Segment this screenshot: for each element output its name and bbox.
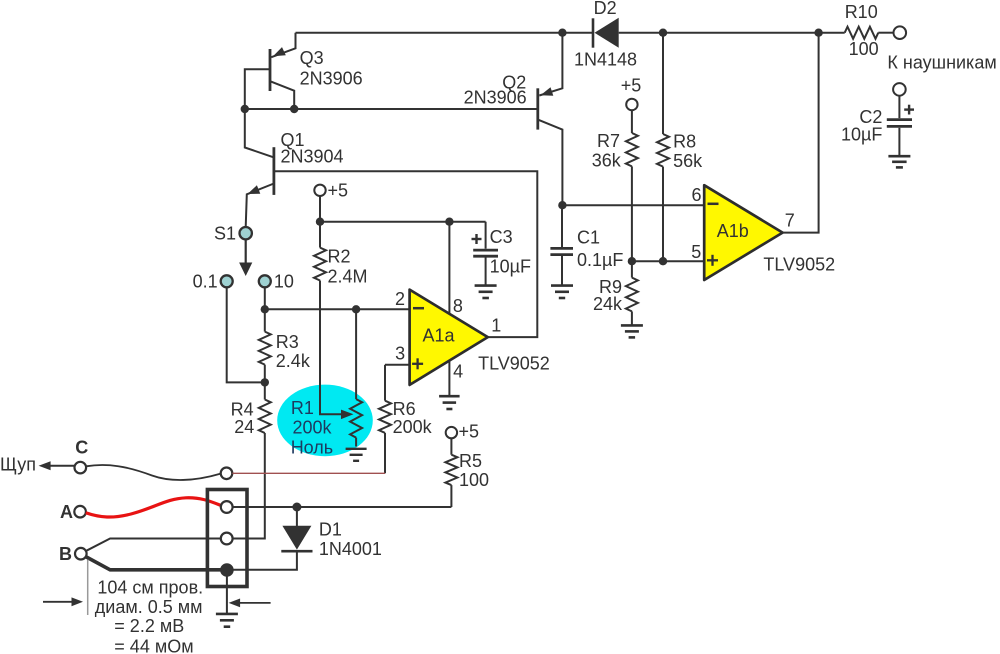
terminal +5 R2: [314, 185, 325, 196]
switch contact 0.1: [221, 275, 233, 287]
svg-text:1N4148: 1N4148: [574, 50, 637, 70]
svg-text:+5: +5: [328, 181, 349, 201]
svg-text:A1a: A1a: [423, 325, 456, 345]
wire contact 0.1 down: [227, 287, 265, 382]
switch S1 pole: [240, 227, 252, 239]
svg-text:56k: 56k: [673, 151, 703, 171]
svg-text:R6: R6: [393, 399, 416, 419]
op-amp A1a plus: [412, 363, 423, 365]
wire inverting input row: [265, 308, 410, 310]
svg-text:24: 24: [234, 417, 254, 437]
wire pin4 ground: [448, 361, 450, 396]
transistor Q1: [245, 109, 274, 157]
svg-text:2.4k: 2.4k: [276, 351, 311, 371]
svg-text:0.1µF: 0.1µF: [577, 250, 623, 270]
node junction Q2 collector: [558, 201, 566, 209]
svg-text:R2: R2: [328, 247, 351, 267]
wire A1b output: [783, 33, 819, 233]
capacitor C1: [561, 205, 563, 247]
wire B thick: [86, 557, 222, 570]
svg-text:К наушникам: К наушникам: [887, 53, 996, 73]
svg-text:Q3: Q3: [300, 48, 324, 68]
svg-text:36k: 36k: [592, 151, 622, 171]
node junction pin8 rail: [445, 218, 453, 226]
terminal A probe: [74, 506, 86, 518]
op-amp A1b plus: [707, 259, 718, 261]
svg-text:S1: S1: [214, 224, 236, 244]
wire top rail right: [619, 32, 845, 34]
resistor R10: [845, 27, 879, 39]
svg-text:R10: R10: [845, 2, 878, 22]
svg-text:2N3906: 2N3906: [300, 69, 363, 89]
svg-text:C: C: [75, 438, 88, 458]
svg-text:R8: R8: [673, 132, 696, 152]
svg-text:8: 8: [453, 296, 463, 316]
svg-text:D1: D1: [319, 520, 342, 540]
node junction Q3 collector: [290, 105, 298, 113]
wire noninverting input row: [385, 364, 410, 366]
wire Q3 base-collector row: [245, 108, 538, 110]
svg-text:+5: +5: [621, 76, 642, 96]
wire contact 10 down: [264, 287, 266, 309]
svg-text:200k: 200k: [393, 417, 433, 437]
highlight ellipse R1: [277, 385, 373, 457]
terminal B box: [221, 533, 233, 545]
wire pin8: [448, 222, 450, 314]
terminal A box: [221, 501, 233, 513]
wire A red: [86, 498, 221, 517]
svg-text:2: 2: [395, 289, 405, 309]
svg-text:A: A: [60, 502, 73, 522]
resistor R9: [631, 261, 633, 277]
svg-text:R1: R1: [291, 398, 314, 418]
svg-text:+5: +5: [459, 422, 480, 442]
svg-text:2N3904: 2N3904: [281, 147, 344, 167]
svg-text:5: 5: [691, 242, 701, 262]
svg-text:104 см пров.: 104 см пров.: [97, 578, 203, 598]
transistor Q3: [271, 33, 295, 58]
svg-text:Щуп: Щуп: [0, 454, 36, 474]
wire pin6 row: [562, 204, 704, 206]
svg-text:R7: R7: [597, 131, 620, 151]
node junction R8 bottom: [659, 257, 667, 265]
node junction R8 top: [659, 29, 667, 37]
capacitor C3: [485, 222, 487, 249]
svg-text:6: 6: [692, 185, 702, 205]
wire +5 to rail: [319, 196, 321, 222]
node junction R3 top: [261, 305, 269, 313]
svg-text:диам. 0.5 мм: диам. 0.5 мм: [95, 597, 203, 617]
svg-text:7: 7: [785, 210, 795, 230]
capacitor C2: [898, 96, 900, 118]
op-amp A1a: [410, 290, 488, 385]
node junction R3 bottom: [261, 378, 269, 386]
svg-text:= 2.2 мВ: = 2.2 мВ: [114, 616, 184, 636]
switch S1 wiper arrow: [245, 240, 247, 264]
measure arrow right: [240, 602, 271, 604]
svg-text:100: 100: [459, 470, 489, 490]
svg-text:C1: C1: [577, 228, 600, 248]
node junction Q3 base: [241, 105, 249, 113]
svg-text:A1b: A1b: [717, 221, 749, 241]
node junction R7 bottom: [628, 257, 636, 265]
svg-text:10µF: 10µF: [490, 257, 531, 277]
op-amp A1b minus: [708, 203, 719, 206]
node junction R2 top: [316, 218, 324, 226]
svg-text:D2: D2: [594, 0, 617, 18]
node junction output rail: [814, 29, 822, 37]
resistor R3: [264, 309, 266, 331]
resistor R4: [264, 382, 266, 399]
svg-text:200k: 200k: [293, 417, 333, 437]
wire Q1 collector feedback: [274, 171, 537, 337]
terminal +5 R7: [626, 99, 637, 110]
svg-text:TLV9052: TLV9052: [478, 353, 550, 373]
svg-text:10µF: 10µF: [841, 124, 882, 144]
node junction R1 top: [352, 305, 360, 313]
probe arrow Щуп: [46, 465, 75, 467]
wire +5 rail to C3: [320, 221, 486, 223]
svg-text:1N4001: 1N4001: [319, 539, 382, 559]
diode D2: [592, 18, 595, 47]
wire pin5 row: [632, 260, 704, 262]
resistor R7: [631, 110, 633, 133]
terminal C2 top: [893, 83, 906, 96]
svg-text:3: 3: [395, 344, 405, 364]
wire C wavy: [86, 465, 221, 480]
node junction Q2 emitter: [558, 29, 566, 37]
svg-text:2N3906: 2N3906: [464, 88, 527, 108]
terminal +5 R5: [446, 427, 457, 438]
resistor R6: [384, 365, 386, 401]
op-amp A1b: [704, 185, 782, 280]
wire A row: [233, 506, 452, 508]
wire top rail left: [296, 32, 594, 34]
transistor Q2: [539, 33, 562, 96]
svg-text:0.1: 0.1: [193, 272, 218, 292]
node B bottom: [220, 563, 234, 577]
svg-text:R5: R5: [459, 451, 482, 471]
measure arrow left: [43, 601, 72, 603]
diode D1: [296, 507, 298, 527]
svg-text:24k: 24k: [593, 294, 623, 314]
switch contact 10: [259, 275, 271, 287]
svg-text:B: B: [59, 544, 72, 564]
potentiometer R1: [355, 309, 357, 399]
terminal B probe: [75, 548, 87, 560]
svg-text:10: 10: [274, 272, 294, 292]
svg-text:100: 100: [849, 39, 879, 59]
svg-text:TLV9052: TLV9052: [763, 255, 835, 275]
svg-text:4: 4: [453, 361, 463, 381]
resistor R2: [319, 222, 321, 248]
svg-text:C3: C3: [490, 227, 513, 247]
terminal C probe: [75, 462, 87, 474]
resistor R5: [450, 438, 452, 454]
svg-text:R3: R3: [276, 332, 299, 352]
wire B thin: [86, 539, 221, 552]
resistor R8: [662, 33, 664, 134]
wire C sense to R6: [232, 472, 385, 474]
svg-text:1: 1: [491, 315, 501, 335]
op-amp A1a minus: [413, 307, 424, 310]
svg-text:Ноль: Ноль: [291, 438, 334, 458]
wire R10 to output: [878, 32, 893, 34]
measure line gray: [87, 560, 89, 616]
svg-text:= 44 мОм: = 44 мОм: [114, 637, 193, 654]
connector box: [207, 490, 247, 587]
ground connector: [226, 570, 228, 613]
terminal C box: [221, 468, 233, 480]
terminal output: [894, 26, 907, 39]
node junction D1 top: [292, 503, 301, 512]
svg-text:2.4M: 2.4M: [328, 267, 368, 287]
